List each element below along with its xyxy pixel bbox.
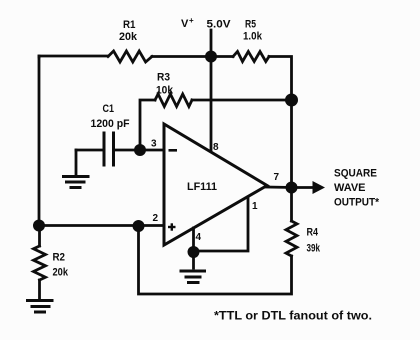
junction: left rail / R2 node	[33, 220, 45, 232]
wire: C1 left lead down	[75, 150, 78, 176]
svg-text:20k: 20k	[53, 267, 69, 279]
svg-text:WAVE: WAVE	[334, 182, 366, 194]
svg-text:7: 7	[274, 172, 280, 183]
label SQUARE WAVE OUTPUT	[334, 168, 380, 209]
wire: R2 top lead	[38, 226, 41, 247]
ground (pin 4)	[181, 271, 205, 283]
svg-text:10k: 10k	[156, 85, 174, 97]
svg-text:5.0V: 5.0V	[207, 19, 232, 31]
ground (R2)	[28, 301, 53, 313]
resistor R5	[233, 52, 269, 62]
label R1	[119, 19, 138, 43]
wire: top-right corner down right rail	[269, 57, 292, 101]
svg-text:R4: R4	[307, 227, 319, 239]
non-inverting input mark	[168, 223, 176, 230]
capacitor C1	[76, 133, 140, 165]
wire: top rail R1 to V+ node	[152, 55, 211, 58]
wire: pin 7 output to node	[266, 186, 292, 189]
svg-text:R2: R2	[53, 252, 66, 264]
wire: pin 4 lead	[192, 228, 195, 252]
wire: R2 bottom lead	[38, 280, 41, 298]
resistor R3	[155, 94, 192, 107]
wire: R4 top lead to output node	[290, 188, 293, 222]
wire: R3 left drop to C1 node	[140, 100, 155, 150]
wire: pin 4 ground stem	[192, 252, 195, 268]
wire: left rail	[38, 56, 41, 226]
wire: pin 1 strap to pin 4 node	[194, 197, 249, 251]
junction: pin 4 / ground node	[188, 246, 200, 258]
svg-text:2: 2	[153, 213, 159, 224]
wire: R3 to right rail	[192, 99, 292, 102]
inverting input mark	[169, 149, 178, 152]
svg-text:R5: R5	[245, 19, 256, 31]
label R5	[243, 19, 263, 43]
svg-text:R1: R1	[123, 19, 136, 31]
svg-text:8: 8	[213, 142, 219, 153]
junction: V+ node	[205, 51, 217, 63]
svg-text:3: 3	[151, 139, 157, 150]
svg-text:39k: 39k	[307, 243, 321, 255]
junction: R3 / right rail node	[285, 94, 298, 107]
svg-text:1200 pF: 1200 pF	[91, 118, 130, 130]
junction: C1 / pin 3 node	[134, 144, 146, 156]
wire: top rail V+ node to R5	[211, 55, 233, 58]
svg-text:1: 1	[252, 201, 258, 212]
svg-text:+: +	[189, 16, 194, 25]
wire: plus-input row to pin 2	[39, 224, 164, 227]
wire: V+ vertical feed to pin 8	[210, 30, 213, 151]
wire: right rail R3 node to output node	[290, 100, 293, 188]
svg-text:*TTL or DTL fanout of two.: *TTL or DTL fanout of two.	[214, 311, 372, 323]
output arrow	[292, 181, 326, 194]
svg-text:R3: R3	[157, 72, 170, 84]
power V+ label	[181, 16, 194, 30]
resistor R1	[108, 51, 152, 62]
resistor R2	[34, 246, 46, 280]
svg-text:OUTPUT*: OUTPUT*	[334, 197, 380, 209]
ground (C1)	[64, 177, 89, 188]
label R2	[53, 252, 69, 279]
wire: C1 node to pin 3	[140, 149, 164, 152]
svg-text:20k: 20k	[119, 31, 138, 43]
wire: bottom strap from pin2 node down and right to R4	[139, 226, 292, 294]
svg-text:1.0k: 1.0k	[243, 31, 263, 43]
svg-text:V: V	[181, 18, 189, 30]
label R4	[307, 227, 321, 255]
junction: output node	[286, 182, 298, 194]
svg-text:C1: C1	[103, 103, 115, 115]
junction: pin 2 / strap node	[133, 220, 145, 232]
svg-text:SQUARE: SQUARE	[334, 168, 377, 180]
label R3	[156, 72, 174, 97]
svg-text:LF111: LF111	[187, 181, 217, 193]
wire: top rail left segment	[39, 56, 108, 57]
op-amp U1 LF111	[164, 124, 267, 245]
resistor R4	[286, 221, 297, 256]
svg-text:4: 4	[196, 232, 202, 243]
label C1	[91, 103, 130, 130]
